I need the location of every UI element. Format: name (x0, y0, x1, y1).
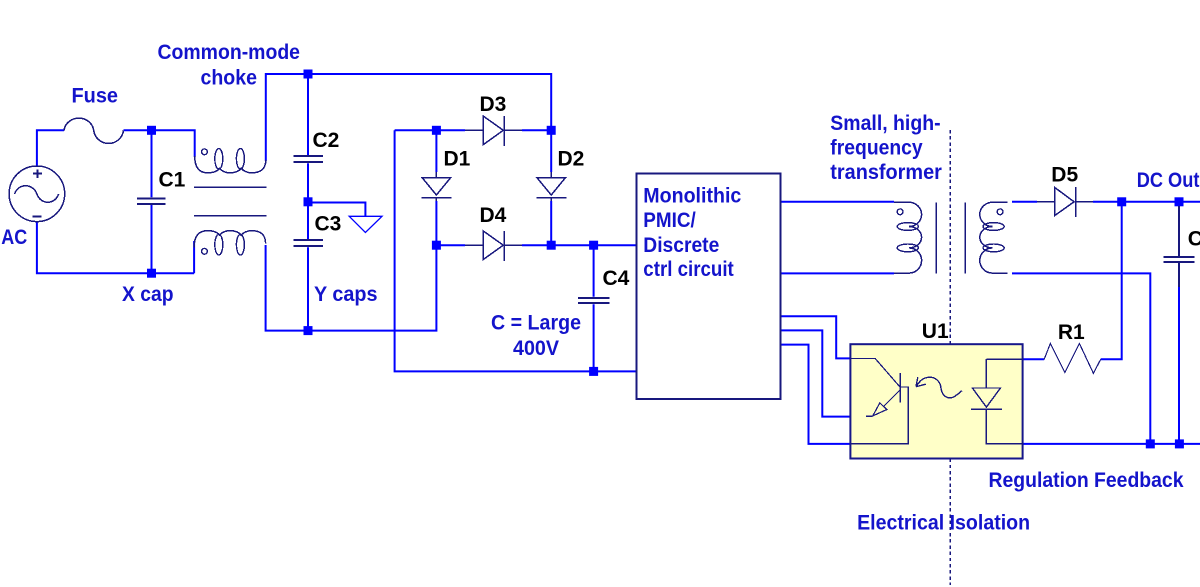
node feedback rail 2 (1175, 439, 1184, 448)
svg-text:D2: D2 (558, 148, 585, 171)
svg-text:choke: choke (201, 67, 258, 90)
node DC out 1 (1117, 197, 1126, 206)
AC minus (32, 216, 41, 218)
node DC out 2 (1175, 197, 1184, 206)
svg-text:transformer: transformer (830, 161, 942, 184)
choke polarity dot top (202, 149, 208, 155)
common-mode choke bottom winding (194, 231, 266, 248)
wire to ground (308, 203, 365, 217)
AC source circle (9, 166, 65, 222)
svg-text:Electrical Isolation: Electrical Isolation (857, 512, 1030, 535)
wire C1 column (151, 130, 153, 273)
node feedback rail 1 (1146, 439, 1155, 448)
transformer T1 secondary (980, 202, 1008, 273)
svg-text:U1: U1 (922, 320, 949, 343)
diode D3 (465, 116, 522, 146)
wire AC top lead (37, 74, 1200, 444)
node D1 D3 (432, 126, 441, 135)
opto LED (971, 359, 1023, 444)
svg-text:AC: AC (1, 226, 27, 249)
AC plus (33, 169, 42, 177)
node C2 C3 mid (304, 197, 313, 206)
node D4 D2 (547, 241, 556, 250)
svg-text:Fuse: Fuse (72, 84, 119, 107)
svg-text:C3: C3 (315, 213, 342, 236)
wire D1 column (435, 130, 437, 245)
svg-text:D3: D3 (480, 93, 507, 116)
wire C4 column (593, 245, 595, 371)
svg-text:ctrl circuit: ctrl circuit (643, 258, 734, 281)
fuse F1 (64, 118, 124, 143)
svg-text:C1: C1 (159, 168, 186, 191)
svg-text:400V: 400V (513, 337, 559, 360)
wire bottom bridge row (436, 244, 636, 246)
wire DC out rail (1093, 201, 1200, 203)
svg-text:C5: C5 (1188, 227, 1200, 250)
transformer primary dot (897, 209, 903, 215)
wire PMIC to opto collector (780, 316, 851, 358)
svg-text:D5: D5 (1051, 164, 1078, 187)
svg-text:Small, high-: Small, high- (830, 112, 940, 135)
transformer core lines (936, 202, 965, 273)
common-mode choke top winding (195, 156, 266, 173)
node X cap bottom (147, 269, 156, 278)
node D3 D2 (547, 126, 556, 135)
diode D1 (422, 172, 452, 201)
isolation dashed line (949, 130, 951, 585)
wire top bridge row (395, 129, 552, 131)
opto base wire (851, 387, 908, 444)
wire secondary bottom (1012, 273, 1150, 444)
node C4 top (589, 241, 598, 250)
svg-text:Y caps: Y caps (314, 283, 378, 306)
diode D4 (465, 231, 522, 261)
capacitor C3 (294, 240, 323, 246)
transformer T1 primary (894, 202, 922, 273)
transformer secondary dot (997, 209, 1003, 215)
resistor R1 (1044, 344, 1101, 374)
node Y caps bottom (304, 326, 313, 335)
wire PMIC to primary bottom (780, 272, 894, 274)
wire D2 column (550, 130, 552, 245)
svg-text:D1: D1 (444, 148, 471, 171)
svg-text:C = Large: C = Large (491, 312, 581, 335)
svg-text:Monolithic: Monolithic (643, 184, 741, 207)
optocoupler U1 box (850, 344, 1022, 458)
PMIC box U2 (636, 173, 780, 399)
wire PMIC to primary top (780, 201, 894, 203)
ground (349, 216, 382, 232)
diode D2 (536, 172, 566, 201)
choke core lines (194, 187, 267, 216)
node fuse/C1 top (147, 126, 156, 135)
capacitor C1 (137, 198, 166, 204)
node C4 bottom (589, 367, 598, 376)
node choke top rail (304, 70, 313, 79)
wire left return (395, 130, 637, 371)
wire secondary top to D5 (1012, 201, 1037, 203)
svg-text:Regulation Feedback: Regulation Feedback (989, 469, 1184, 492)
wire choke bottom right to rail (266, 245, 437, 331)
svg-text:PMIC/: PMIC/ (643, 209, 696, 232)
wire R1 leads (1023, 202, 1122, 359)
capacitor C2 (294, 156, 323, 162)
wire PMIC to opto emitter (780, 330, 866, 416)
opto phototransistor Q (851, 358, 900, 406)
wire AC bottom lead (37, 221, 194, 273)
opto light squiggle arrow (916, 377, 962, 398)
svg-text:R1: R1 (1058, 321, 1085, 344)
svg-text:C4: C4 (603, 267, 630, 290)
capacitor C4 (578, 298, 610, 303)
capacitor C5 output (1164, 206, 1195, 287)
AC sine wave (15, 186, 59, 203)
svg-text:frequency: frequency (830, 137, 923, 160)
opto LED top wire (986, 358, 1022, 360)
svg-text:C2: C2 (313, 129, 340, 152)
choke polarity dot bottom (202, 248, 208, 254)
junction squares (147, 70, 1184, 449)
wire PMIC to opto base (780, 345, 851, 444)
wire bottom feedback rail (1023, 443, 1200, 445)
wire C2 C3 column (307, 74, 309, 331)
svg-text:DC Output: DC Output (1137, 169, 1200, 192)
svg-text:D4: D4 (480, 204, 507, 227)
svg-text:Discrete: Discrete (643, 234, 719, 257)
diode D5 (1037, 187, 1093, 217)
wire fuse to choke (124, 130, 195, 157)
node D1 D4 (432, 241, 441, 250)
svg-text:Common-mode: Common-mode (158, 41, 301, 64)
wire choke top right to rail (266, 74, 551, 161)
svg-text:X cap: X cap (122, 283, 174, 306)
wire output cap column (1178, 287, 1180, 444)
